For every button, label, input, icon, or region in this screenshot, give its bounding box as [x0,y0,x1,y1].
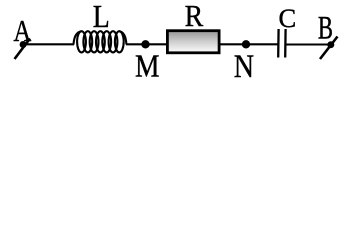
svg-text:C: C [278,3,296,33]
capacitor C (two plates) [278,29,285,58]
terminal A (dot with slanted lead) [15,39,31,60]
svg-text:L: L [93,1,110,35]
terminal B (dot with slanted lead) [320,37,338,60]
node M (junction dot) [141,40,149,48]
wire resistor to capacitor [221,43,279,45]
wire capacitor to B [286,43,331,45]
svg-text:B: B [318,11,333,47]
svg-text:M: M [135,50,160,84]
wire inductor to resistor [126,43,167,45]
inductor L [74,31,127,52]
node N (junction dot) [242,40,250,48]
resistor R (box) [167,31,219,53]
wire A to inductor [23,43,74,45]
svg-text:N: N [234,48,254,84]
svg-text:R: R [185,0,204,33]
